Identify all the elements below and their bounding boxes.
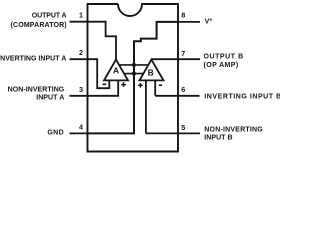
- pin 3 stub: [70, 95, 88, 97]
- svg-text:NON-INVERTING: NON-INVERTING: [8, 86, 65, 93]
- op-amp A (comparator) triangle: [104, 60, 128, 81]
- polarity - of A: [103, 83, 107, 85]
- wire GND rail from pin4 up to V+ staircase to pin8: [88, 22, 179, 133]
- svg-text:INVERTING INPUT A: INVERTING INPUT A: [0, 55, 66, 62]
- svg-text:(COMPARATOR): (COMPARATOR): [11, 22, 67, 29]
- polarity + of B: [138, 83, 143, 88]
- upper supply stub between A and B: [119, 64, 149, 66]
- polarity - of B: [159, 84, 162, 86]
- polarity + of A: [121, 82, 126, 87]
- wire pin2 to inverting input A: [88, 59, 110, 88]
- svg-text:7: 7: [181, 49, 185, 58]
- op-amp B triangle: [140, 60, 164, 81]
- wire pin1 to comparator A output (staircase): [88, 22, 117, 61]
- lower supply stub between A and B: [124, 73, 143, 75]
- svg-text:5: 5: [181, 123, 185, 132]
- svg-text:INPUT A: INPUT A: [36, 95, 64, 102]
- svg-text:OUTPUT B: OUTPUT B: [204, 53, 244, 60]
- svg-text:1: 1: [79, 11, 83, 20]
- svg-text:V+: V+: [205, 17, 214, 25]
- pin 8 stub (V+): [178, 21, 200, 23]
- wire pin5 to non-inverting input B: [146, 80, 178, 133]
- pin 2 stub: [70, 58, 88, 60]
- pin 1 stub: [70, 21, 88, 23]
- wire pin6 to inverting input B: [155, 80, 178, 95]
- svg-text:2: 2: [79, 48, 83, 57]
- IC package U1 DIP-8 outline with notch: [88, 4, 179, 152]
- wire pin3 to non-inverting input A: [88, 80, 119, 95]
- svg-text:OUTPUT A: OUTPUT A: [32, 13, 67, 20]
- svg-text:NON-INVERTING: NON-INVERTING: [204, 126, 263, 133]
- svg-text:INPUT B: INPUT B: [204, 135, 232, 142]
- pin 7 stub: [178, 58, 200, 60]
- svg-text:A: A: [113, 66, 119, 76]
- pin 5 stub: [178, 132, 200, 134]
- pin 4 stub (GND): [70, 132, 88, 134]
- svg-text:(OP AMP): (OP AMP): [204, 62, 239, 69]
- svg-text:INVERTING INPUT B: INVERTING INPUT B: [204, 94, 280, 101]
- svg-text:4: 4: [79, 122, 83, 131]
- svg-text:8: 8: [181, 11, 185, 20]
- svg-text:6: 6: [181, 85, 185, 94]
- wire pin7 to op-amp B output: [152, 58, 178, 60]
- junction dot lower (GND rail): [132, 72, 136, 76]
- junction dot upper (V+ rail): [132, 63, 136, 67]
- svg-text:3: 3: [79, 85, 83, 94]
- svg-text:GND: GND: [47, 129, 64, 136]
- svg-text:B: B: [148, 67, 154, 77]
- pin 6 stub: [178, 95, 200, 97]
